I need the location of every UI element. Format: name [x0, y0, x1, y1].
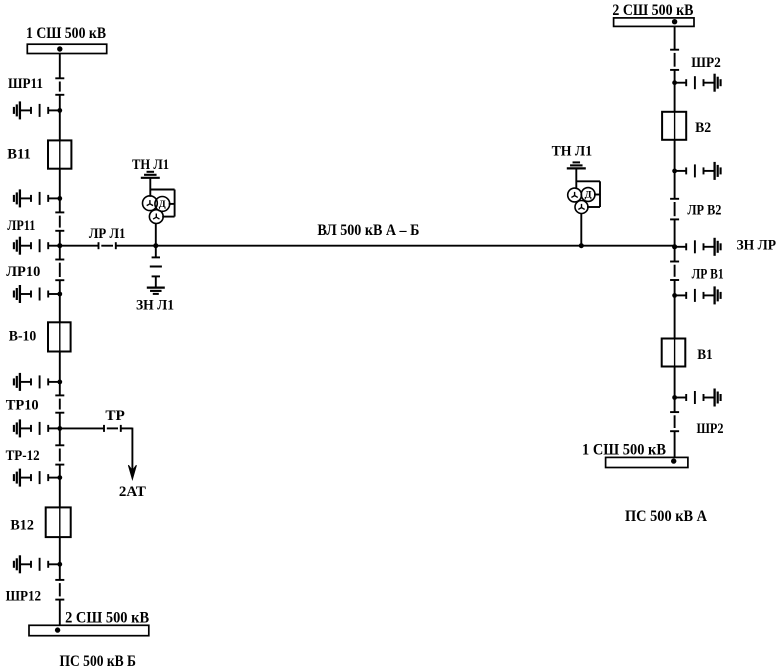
wire inside В11 — [59, 140, 61, 168]
earthing switch below В-10 — [14, 373, 62, 391]
svg-text:ШР11: ШР11 — [8, 76, 43, 92]
svg-text:ШР2: ШР2 — [691, 55, 721, 71]
disconnector ЛР10 — [55, 260, 64, 281]
wire ШР2-В2 — [674, 70, 676, 112]
wire В1-ШР2 — [674, 367, 676, 413]
ground ЗН Л1 — [147, 288, 165, 294]
svg-text:ЛР Л1: ЛР Л1 — [89, 226, 126, 242]
svg-text:2 СШ 500 кВ: 2 СШ 500 кВ — [612, 2, 693, 19]
earthing switch below ШР2 — [672, 74, 720, 92]
wire ЛР10-В-10 — [59, 280, 61, 322]
svg-text:В1: В1 — [697, 347, 713, 363]
disconnector ШР2 (top) — [670, 50, 679, 70]
wire ШР2-bus1А — [674, 431, 676, 457]
svg-text:1 СШ 500 кВ: 1 СШ 500 кВ — [26, 25, 106, 42]
wire ЛР В1-В1 — [674, 280, 676, 339]
svg-text:ТН Л1: ТН Л1 — [132, 157, 169, 173]
disconnector ТР — [104, 425, 121, 432]
svg-text:ЗН ЛР: ЗН ЛР — [737, 237, 777, 253]
earthing switch below ТР-12 — [14, 469, 62, 487]
busbar 1 СШ 500 кВ (Б) — [27, 44, 106, 53]
svg-text:Д: Д — [159, 199, 167, 209]
svg-text:ТР-12: ТР-12 — [6, 448, 40, 464]
svg-text:ШР12: ШР12 — [6, 588, 42, 604]
earthing switch at line node Б — [14, 237, 62, 255]
voltage transformer ТН Л1 (Б) — [141, 172, 175, 224]
disconnector ШР2 (bottom) — [670, 412, 679, 431]
disconnector ЛР Л1 — [99, 242, 116, 249]
disconnector ШР11 — [55, 78, 64, 95]
wire ЛР11-node — [59, 231, 61, 246]
wire node-ЛР В1 — [674, 247, 676, 262]
voltage transformer ТН Л1 (А) — [567, 162, 600, 213]
disconnector ЛР В2 — [670, 199, 679, 220]
svg-text:В-10: В-10 — [9, 329, 37, 345]
circuit breaker В11 — [48, 140, 71, 168]
svg-text:ТН Л1: ТН Л1 — [552, 144, 593, 160]
earthing switch below В11 — [14, 189, 62, 207]
wire В2-ЛР В2 — [674, 140, 676, 199]
svg-text:ЛР10: ЛР10 — [6, 264, 40, 280]
arrow to 2АТ — [128, 465, 136, 479]
disconnector ТР-12 — [55, 445, 64, 464]
earthing switch below ЛР10 — [14, 285, 62, 303]
svg-text:ТР10: ТР10 — [6, 398, 39, 414]
svg-text:ПС 500 кВ А: ПС 500 кВ А — [625, 508, 708, 525]
earthing switch below ЛР В1 — [672, 286, 720, 304]
node line tap А — [672, 244, 677, 249]
wire ВЛ 500 кВ А-Б (line) — [60, 245, 99, 247]
wire ШР11-В11 — [59, 95, 61, 141]
busbar 2 СШ 500 кВ (Б) — [29, 625, 149, 635]
wire ТР10-node2АТ — [59, 413, 61, 446]
svg-text:ТР: ТР — [105, 408, 125, 424]
wire ЛР Л1 to ПС А — [116, 245, 675, 247]
earthing switch below В12 — [14, 555, 62, 573]
busbar 1 СШ 500 кВ (А) — [606, 457, 688, 467]
wire bus1-ШР11 — [59, 54, 61, 79]
wire inside В12 — [59, 507, 61, 537]
earthing switch below ШР11 — [14, 101, 62, 119]
wire В-10-ТР10 — [59, 352, 61, 396]
circuit breaker В1 — [662, 339, 686, 367]
wire inside В-10 — [59, 322, 61, 351]
earthing switch below В1 — [672, 389, 720, 407]
svg-text:ПС 500 кВ Б: ПС 500 кВ Б — [60, 653, 137, 669]
disconnector ЛР В1 — [670, 262, 679, 281]
svg-text:В2: В2 — [695, 120, 711, 136]
svg-text:2 СШ 500 кВ: 2 СШ 500 кВ — [65, 610, 149, 627]
circuit breaker В-10 — [48, 322, 71, 351]
wire ТН Л1 down to line — [153, 223, 158, 248]
earthing switch ЗН Л1 — [150, 246, 162, 288]
svg-text:ЗН Л1: ЗН Л1 — [136, 297, 174, 313]
earthing switch ЗН ЛР — [672, 238, 720, 256]
svg-text:В12: В12 — [10, 518, 34, 534]
svg-text:ШР2: ШР2 — [697, 421, 724, 437]
wire tap-ТР — [60, 427, 104, 429]
svg-text:В11: В11 — [7, 147, 31, 163]
wire inside В2 — [674, 112, 676, 140]
earthing switch below В2 — [672, 162, 720, 180]
svg-text:ЛР В1: ЛР В1 — [692, 267, 724, 283]
svg-text:1 СШ 500 кВ: 1 СШ 500 кВ — [582, 441, 666, 458]
disconnector ЛР11 — [55, 212, 64, 230]
wire ТН Л1 (А) down to line — [579, 213, 584, 248]
wire ТР-12-В12 — [59, 465, 61, 508]
svg-text:Д: Д — [585, 190, 593, 200]
svg-text:2АТ: 2АТ — [119, 484, 146, 500]
wire ШР12-bus2 — [59, 600, 61, 626]
node line tap Б — [57, 243, 62, 248]
wire В11-ЛР11 — [59, 169, 61, 213]
wire В12-ШР12 — [59, 537, 61, 580]
wire node-ЛР10 — [59, 246, 61, 260]
earthing switch at 2АТ tap — [14, 419, 62, 437]
wire ЛР В2-node — [674, 219, 676, 246]
svg-text:ЛР В2: ЛР В2 — [687, 202, 721, 218]
circuit breaker В2 — [662, 112, 686, 140]
svg-text:ЛР11: ЛР11 — [7, 218, 35, 234]
wire bus2А-ШР2 — [674, 26, 676, 49]
busbar 2 СШ 500 кВ (А) — [614, 18, 694, 27]
disconnector ТР10 — [55, 395, 64, 412]
disconnector ШР12 — [55, 580, 64, 600]
wire ТР-corner — [121, 428, 133, 472]
svg-text:ВЛ 500 кВ А – Б: ВЛ 500 кВ А – Б — [317, 222, 419, 239]
wire inside В1 — [674, 339, 676, 367]
circuit breaker В12 — [46, 507, 71, 537]
